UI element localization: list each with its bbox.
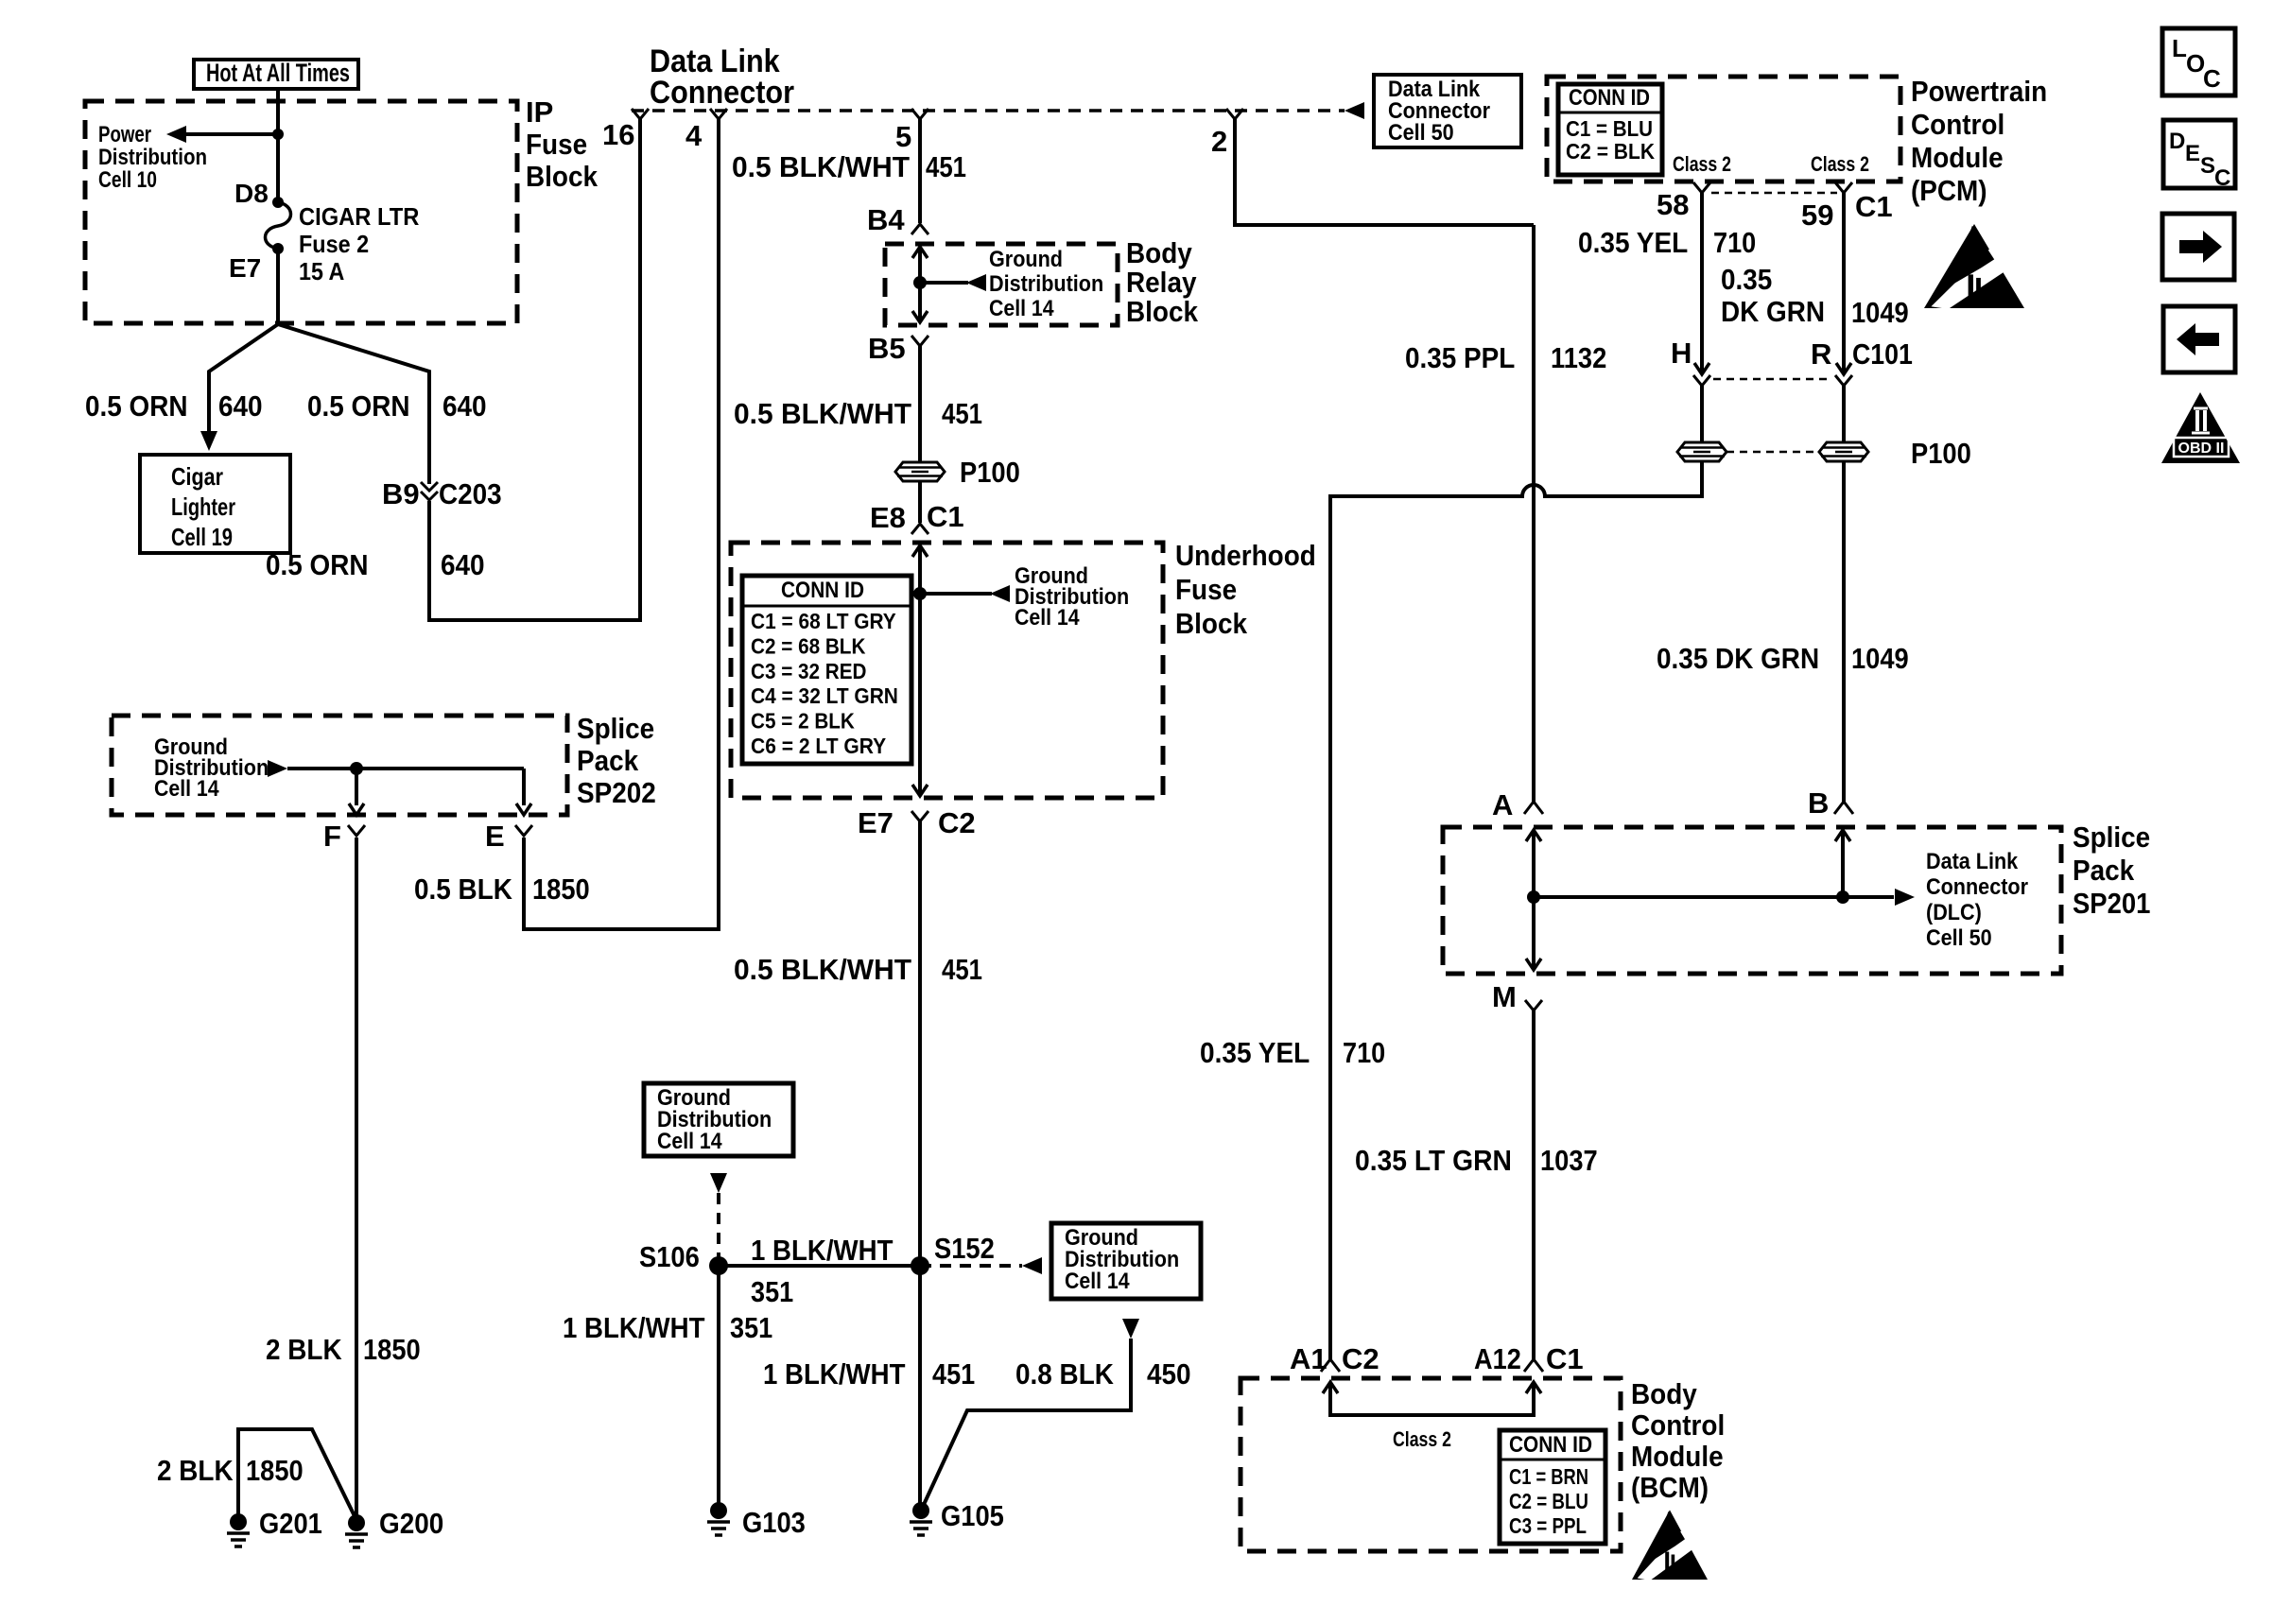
node: splice in SP201 (B) <box>1836 890 1849 904</box>
svg-text:C1 = BLU: C1 = BLU <box>1566 116 1653 141</box>
svg-text:Cigar: Cigar <box>171 462 223 491</box>
svg-text:H: H <box>1671 337 1692 370</box>
arrow from Ground Distribution to S106 <box>710 1173 727 1193</box>
node: splice in SP201 (A) <box>1527 890 1540 904</box>
svg-text:SP201: SP201 <box>2073 887 2150 920</box>
svg-text:Block: Block <box>1126 295 1199 328</box>
svg-text:451: 451 <box>926 150 966 183</box>
node: power distribution tap <box>272 129 284 140</box>
dashed box: Body Control Module <box>1241 1378 1621 1551</box>
wire: YEL from P100 to BCM A1 with hop over PPL <box>1330 462 1702 1359</box>
svg-text:Fuse: Fuse <box>1175 573 1237 606</box>
svg-text:S: S <box>2200 153 2215 179</box>
svg-text:D: D <box>2169 129 2185 154</box>
svg-text:C2: C2 <box>1342 1342 1379 1375</box>
svg-text:710: 710 <box>1343 1036 1385 1069</box>
svg-text:C4 = 32 LT GRN: C4 = 32 LT GRN <box>751 683 898 708</box>
svg-text:Cell 14: Cell 14 <box>1015 605 1080 631</box>
svg-text:C203: C203 <box>439 477 502 510</box>
svg-text:Splice: Splice <box>2073 821 2150 854</box>
svg-text:Cell 14: Cell 14 <box>1065 1269 1130 1294</box>
wire: B5 to P100 <box>918 346 922 462</box>
svg-text:1132: 1132 <box>1551 341 1606 374</box>
wire: R to P100 <box>1842 386 1846 442</box>
svg-text:Lighter: Lighter <box>171 492 235 521</box>
box: Ground Distribution Cell 14 (right of S152) <box>1051 1223 1201 1299</box>
node: ground tap in Underhood Fuse Block <box>913 587 927 600</box>
dashed box: Body Relay Block <box>885 244 1118 325</box>
svg-text:C1 = 68 LT GRY: C1 = 68 LT GRY <box>751 609 896 633</box>
dashed faceline: Data Link Connector <box>632 109 1345 112</box>
connector E of SP202 <box>515 825 532 836</box>
svg-text:Fuse: Fuse <box>526 128 587 161</box>
wire: DLC pin 4 to splice pack E <box>524 119 719 929</box>
svg-text:IP: IP <box>526 95 553 129</box>
wire: DK GRN from P100 to SP201 B <box>1842 462 1846 802</box>
svg-text:D8: D8 <box>234 179 269 208</box>
svg-text:0.5 BLK/WHT: 0.5 BLK/WHT <box>734 953 911 986</box>
svg-text:G105: G105 <box>941 1499 1004 1532</box>
wire: PCM 59 to C101 R (DK GRN) <box>1842 193 1846 372</box>
ground G105 <box>912 1502 929 1519</box>
svg-text:CONN ID: CONN ID <box>1509 1432 1592 1458</box>
svg-text:L: L <box>2172 34 2187 62</box>
wire: M to BCM A12 (LT GRN) <box>1532 1011 1536 1359</box>
svg-text:2 BLK: 2 BLK <box>266 1333 342 1366</box>
node: splice S106 <box>709 1256 728 1275</box>
svg-text:C1: C1 <box>927 500 964 533</box>
grommet P100 (H wire) <box>1677 442 1726 461</box>
thin dashed faceline: PCM connector <box>1711 192 1837 195</box>
icon: OBD II triangle <box>2161 392 2240 463</box>
connector A1 C2 of BCM <box>1321 1359 1340 1372</box>
wire: S152 to G105 <box>918 1266 922 1511</box>
svg-text:C2 = BLU: C2 = BLU <box>1509 1489 1588 1513</box>
svg-text:Body: Body <box>1126 236 1192 269</box>
svg-text:Powertrain: Powertrain <box>1911 75 2047 108</box>
pin 5 of DLC <box>911 109 928 119</box>
wire: A through SP201 <box>1532 831 1536 969</box>
svg-text:1 BLK/WHT: 1 BLK/WHT <box>763 1357 906 1391</box>
wire: DLC pin 5 to B4 <box>918 119 922 223</box>
wire: DLC pin 2 to splice pack A (PPL) <box>1235 119 1534 225</box>
dashed box: IP Fuse Block <box>85 101 517 323</box>
svg-text:Module: Module <box>1911 141 2004 174</box>
connector A12 C1 of BCM <box>1524 1359 1543 1372</box>
thin dashed link between P100 grommets <box>1726 451 1819 454</box>
svg-text:2: 2 <box>1211 125 1227 158</box>
svg-text:16: 16 <box>602 118 634 151</box>
svg-text:G200: G200 <box>379 1507 443 1540</box>
svg-text:Class 2: Class 2 <box>1811 152 1869 176</box>
svg-text:M: M <box>1492 980 1517 1013</box>
svg-text:Body: Body <box>1631 1377 1697 1410</box>
dashed box: Underhood Fuse Block <box>731 543 1163 798</box>
svg-text:Cell 14: Cell 14 <box>989 296 1054 321</box>
wire: PCM 58 to C101 H (YEL) <box>1700 193 1704 372</box>
svg-text:640: 640 <box>218 389 263 423</box>
svg-text:710: 710 <box>1713 226 1756 259</box>
svg-text:P100: P100 <box>960 456 1020 489</box>
svg-text:1049: 1049 <box>1851 296 1909 329</box>
svg-text:R: R <box>1811 337 1831 371</box>
connector C101 at H <box>1694 363 1709 374</box>
table: CONN ID (Underhood Fuse Block) <box>742 576 911 764</box>
connector C101 at R <box>1836 363 1851 374</box>
svg-text:0.5 BLK: 0.5 BLK <box>414 872 512 906</box>
connector B of SP201 <box>1834 802 1853 814</box>
svg-text:451: 451 <box>942 397 982 430</box>
svg-text:Power: Power <box>98 122 151 147</box>
svg-text:Cell 50: Cell 50 <box>1926 925 1992 951</box>
svg-text:(BCM): (BCM) <box>1631 1471 1709 1504</box>
svg-text:351: 351 <box>751 1275 793 1308</box>
connector E8 C1 into Underhood Fuse Block <box>911 524 928 534</box>
node: ground tap in Body Relay Block <box>913 276 927 289</box>
svg-text:0.35: 0.35 <box>1721 263 1772 296</box>
svg-text:B5: B5 <box>868 332 906 365</box>
svg-text:P100: P100 <box>1911 437 1971 470</box>
svg-text:2 BLK: 2 BLK <box>157 1454 234 1487</box>
svg-text:Block: Block <box>1175 607 1248 640</box>
svg-text:1049: 1049 <box>1851 642 1909 675</box>
svg-text:640: 640 <box>442 389 487 423</box>
svg-text:Distribution: Distribution <box>98 145 207 170</box>
box: Hot At All Times <box>194 60 358 89</box>
svg-text:E7: E7 <box>229 253 261 283</box>
wire: fuse output to split <box>276 249 280 324</box>
ground G200 <box>348 1514 365 1531</box>
wire: S106 to G103 <box>717 1266 720 1511</box>
icon box: LOC <box>2162 28 2235 95</box>
svg-text:C1: C1 <box>1855 190 1893 223</box>
arrow to F leg <box>355 769 358 805</box>
wire: PPL vertical to SP201 A <box>1532 225 1536 802</box>
svg-text:SP202: SP202 <box>577 776 656 809</box>
svg-text:0.5 ORN: 0.5 ORN <box>266 548 369 581</box>
svg-text:Relay: Relay <box>1126 266 1197 299</box>
svg-text:B4: B4 <box>867 203 905 236</box>
svg-text:CONN ID: CONN ID <box>1569 85 1650 111</box>
svg-text:Control: Control <box>1631 1408 1725 1442</box>
svg-text:Cell 19: Cell 19 <box>171 523 233 551</box>
table: CONN ID (PCM) <box>1558 84 1662 175</box>
node: splice junction F <box>350 762 363 775</box>
svg-text:Pack: Pack <box>2073 854 2135 887</box>
dashed box: Splice Pack SP201 <box>1443 827 2061 974</box>
svg-text:451: 451 <box>942 953 982 986</box>
ESD warning symbol (PCM) <box>1924 224 2024 308</box>
svg-text:C101: C101 <box>1852 337 1913 371</box>
svg-text:G103: G103 <box>742 1506 806 1539</box>
dashed box: Powertrain Control Module <box>1547 77 1900 181</box>
arrow from Ground Distribution Cell 14 to 0.8 BLK <box>1122 1319 1139 1339</box>
svg-text:C3 = PPL: C3 = PPL <box>1509 1513 1587 1538</box>
svg-text:0.35 DK GRN: 0.35 DK GRN <box>1657 642 1819 675</box>
svg-text:E: E <box>485 820 505 853</box>
svg-text:Connector: Connector <box>650 75 794 111</box>
svg-text:C: C <box>2203 64 2221 93</box>
svg-text:A1: A1 <box>1290 1342 1327 1375</box>
svg-text:Hot At All Times: Hot At All Times <box>206 59 350 87</box>
svg-text:Class 2: Class 2 <box>1393 1427 1451 1451</box>
svg-text:0.5 BLK/WHT: 0.5 BLK/WHT <box>732 150 910 183</box>
svg-text:451: 451 <box>932 1357 975 1391</box>
reference arrow to Data Link Connector (DLC) Cell 50 <box>1843 895 1894 899</box>
pin 16 of DLC <box>632 109 649 119</box>
wire: through Body Relay Block <box>918 248 922 321</box>
svg-text:Cell 14: Cell 14 <box>154 776 219 802</box>
wire: right branch of Y-split <box>278 324 429 484</box>
svg-text:C2: C2 <box>938 806 976 839</box>
reference arrow from Ground Distribution (SP202) <box>268 760 287 777</box>
connector B9 C203 <box>421 482 438 491</box>
reference arrow to Data Link Connector Cell 50 <box>1345 102 1364 119</box>
arrow into Cigar Lighter <box>200 431 217 451</box>
svg-text:0.5 BLK/WHT: 0.5 BLK/WHT <box>734 397 911 430</box>
wire: H to P100 <box>1700 386 1704 442</box>
node: splice S152 <box>911 1256 929 1275</box>
svg-text:Module: Module <box>1631 1440 1724 1473</box>
svg-text:1 BLK/WHT: 1 BLK/WHT <box>751 1234 894 1267</box>
svg-text:0.5 ORN: 0.5 ORN <box>307 389 410 423</box>
connector B4 into Body Relay Block <box>911 224 928 234</box>
svg-text:Fuse 2: Fuse 2 <box>299 230 369 258</box>
wire: F to G200 <box>355 838 358 1523</box>
arrow to E leg <box>522 769 526 805</box>
ESD warning symbol (BCM) <box>1632 1510 1708 1580</box>
wire: Class 2 link inside BCM <box>1330 1383 1534 1415</box>
svg-text:S152: S152 <box>934 1232 995 1265</box>
thin dashed line: C101 <box>1713 378 1832 381</box>
svg-text:Connector: Connector <box>1926 874 2028 900</box>
svg-text:F: F <box>323 820 341 853</box>
svg-text:4: 4 <box>685 119 703 152</box>
svg-text:E: E <box>2185 141 2200 166</box>
dashed wire: to S106 <box>717 1193 720 1263</box>
connector B5 from Body Relay Block <box>911 336 928 346</box>
svg-text:C1: C1 <box>1546 1342 1584 1375</box>
box: Data Link Connector Cell 50 <box>1374 75 1521 147</box>
svg-text:Cell 14: Cell 14 <box>657 1129 722 1154</box>
svg-text:E8: E8 <box>870 501 906 534</box>
connector F of SP202 <box>348 825 365 836</box>
table: CONN ID (BCM) <box>1500 1430 1605 1544</box>
ground G201 <box>230 1513 247 1530</box>
box: Ground Distribution Cell 14 (above S106) <box>644 1083 793 1156</box>
svg-text:59: 59 <box>1801 199 1833 232</box>
svg-text:C5 = 2 BLK: C5 = 2 BLK <box>751 709 855 734</box>
svg-text:Data Link: Data Link <box>1926 849 2019 874</box>
svg-text:C2 = BLK: C2 = BLK <box>1566 139 1655 164</box>
connector A of SP201 <box>1524 802 1543 814</box>
svg-text:1 BLK/WHT: 1 BLK/WHT <box>563 1311 705 1344</box>
wire: P100 to E8 <box>918 481 922 523</box>
svg-text:0.8 BLK: 0.8 BLK <box>1015 1357 1114 1391</box>
svg-text:E7: E7 <box>858 806 894 839</box>
reference arrow to Power Distribution Cell 10 <box>184 132 278 136</box>
wire: 0.8 BLK 450 to G105 <box>922 1339 1131 1509</box>
reference arrow to Ground Distribution Cell 14 (Underhood Fuse Block) <box>920 592 992 596</box>
svg-text:1850: 1850 <box>246 1454 304 1487</box>
pin 59 of PCM <box>1835 182 1852 193</box>
svg-text:B9: B9 <box>382 477 420 510</box>
svg-text:Ground: Ground <box>989 247 1063 272</box>
svg-text:B: B <box>1808 786 1829 820</box>
svg-text:S106: S106 <box>639 1240 700 1273</box>
svg-text:Cell 10: Cell 10 <box>98 167 157 193</box>
svg-text:A12: A12 <box>1474 1342 1521 1375</box>
reference arrow to Ground Distribution Cell 14 (Body Relay Block) <box>920 281 968 285</box>
svg-text:1850: 1850 <box>363 1333 421 1366</box>
connector M of SP201 <box>1525 1000 1542 1011</box>
svg-text:C1 = BRN: C1 = BRN <box>1509 1464 1588 1489</box>
pin 4 of DLC <box>710 109 727 119</box>
wire: 0.5 ORN 640 to DLC pin 16 <box>429 119 640 620</box>
box: Cigar Lighter Cell 19 <box>140 455 290 553</box>
pin 58 of PCM <box>1693 182 1710 193</box>
svg-text:58: 58 <box>1657 188 1689 221</box>
svg-text:OBD II: OBD II <box>2178 441 2225 457</box>
ground G103 <box>710 1502 727 1519</box>
wire: left branch of Y-split to cigar lighter <box>209 324 278 432</box>
svg-text:(PCM): (PCM) <box>1911 174 1987 207</box>
svg-text:15 A: 15 A <box>299 257 344 285</box>
svg-text:A: A <box>1492 788 1513 821</box>
icon box: DESC <box>2163 120 2235 188</box>
dashed box: Splice Pack SP202 <box>112 716 567 815</box>
svg-text:Underhood: Underhood <box>1175 539 1316 572</box>
svg-text:0.35 YEL: 0.35 YEL <box>1200 1036 1310 1069</box>
svg-text:Distribution: Distribution <box>989 271 1103 297</box>
wire: through Underhood Fuse Block <box>918 546 922 795</box>
grommet P100 (R wire) <box>1819 442 1868 461</box>
svg-text:Pack: Pack <box>577 744 639 777</box>
svg-text:Control: Control <box>1911 108 2004 141</box>
svg-text:5: 5 <box>895 120 911 153</box>
svg-text:DK GRN: DK GRN <box>1721 295 1825 328</box>
svg-text:Cell 50: Cell 50 <box>1388 120 1454 146</box>
svg-text:C: C <box>2214 165 2230 191</box>
connector E7 C2 from Underhood Fuse Block <box>911 811 928 821</box>
svg-text:1850: 1850 <box>532 872 590 906</box>
grommet P100 (pin 5 wire) <box>895 462 945 481</box>
svg-text:450: 450 <box>1147 1357 1191 1391</box>
icon box: forward arrow <box>2162 214 2234 280</box>
svg-text:0.5 ORN: 0.5 ORN <box>85 389 188 423</box>
svg-text:0.35 LT GRN: 0.35 LT GRN <box>1355 1144 1512 1177</box>
svg-text:640: 640 <box>441 548 485 581</box>
svg-text:0.35 PPL: 0.35 PPL <box>1405 341 1515 374</box>
svg-text:C3 = 32 RED: C3 = 32 RED <box>751 659 867 683</box>
svg-text:CONN ID: CONN ID <box>781 578 864 603</box>
svg-text:0.35 YEL: 0.35 YEL <box>1578 226 1688 259</box>
wire: hot feed from Hot At All Times box into IP fuse block <box>276 87 280 202</box>
svg-text:Class 2: Class 2 <box>1673 152 1731 176</box>
svg-text:C2 = 68 BLK: C2 = 68 BLK <box>751 633 866 658</box>
wire: branch to G201 <box>238 1429 357 1522</box>
wire: S106 to S152 <box>719 1264 920 1268</box>
svg-text:G201: G201 <box>259 1507 322 1540</box>
svg-text:1037: 1037 <box>1540 1144 1598 1177</box>
svg-text:CIGAR LTR: CIGAR LTR <box>299 202 420 231</box>
svg-text:C6 = 2 LT GRY: C6 = 2 LT GRY <box>751 734 886 758</box>
pin 2 of DLC <box>1226 109 1243 119</box>
fuse CIGAR LTR Fuse 2 15 A <box>272 197 284 208</box>
svg-text:351: 351 <box>730 1311 772 1344</box>
wire: E7 to S152 <box>918 821 922 1266</box>
svg-text:(DLC): (DLC) <box>1926 900 1982 925</box>
svg-text:Splice: Splice <box>577 712 654 745</box>
wire: splice to B in SP201 <box>1534 895 1843 899</box>
svg-text:Block: Block <box>526 160 599 193</box>
dashed reference to Ground Distribution Cell 14 (S152) <box>920 1264 1022 1268</box>
icon box: back arrow <box>2163 306 2235 372</box>
